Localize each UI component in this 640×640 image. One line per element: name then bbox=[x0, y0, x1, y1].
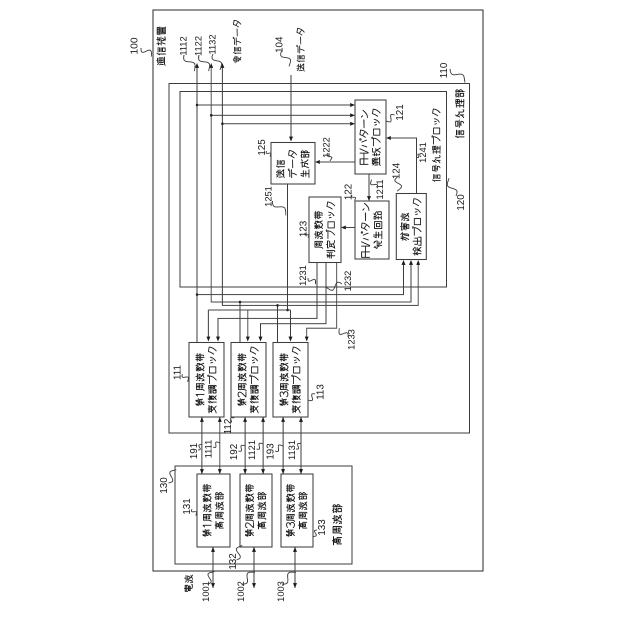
label 1131 with leader bbox=[287, 440, 301, 460]
label 131 with leader bbox=[182, 498, 197, 515]
block 第1周波数帯高周波部 131 bbox=[197, 474, 230, 547]
svg-text:1122: 1122 bbox=[193, 36, 203, 56]
svg-text:1211: 1211 bbox=[375, 180, 385, 200]
label 133 with leader bbox=[313, 519, 329, 537]
wire branch modem3 to FH選択 input3 bbox=[221, 122, 355, 126]
svg-text:111: 111 bbox=[173, 365, 184, 380]
label 1003 with leader bbox=[276, 572, 296, 602]
svg-text:112: 112 bbox=[223, 419, 234, 435]
label 123 with leader bbox=[299, 220, 310, 237]
label 111 with leader bbox=[173, 365, 189, 382]
whole diagram rotated 90deg CCW (patent figure orientation) bbox=[0, 0, 1, 1]
wire 妨害波検出 input from modem1 line bbox=[196, 260, 406, 296]
label 通信装置 bbox=[157, 27, 166, 65]
block FH/パターン選択ブロック 121 bbox=[355, 100, 386, 174]
label 104 with leader bbox=[275, 36, 291, 67]
wire FH発生回路 to 周波数帯判定ブロック bbox=[341, 226, 355, 230]
svg-text:1241: 1241 bbox=[418, 142, 428, 163]
block 第1周波数帯変復調ブロック 111 bbox=[189, 343, 224, 418]
wire 送信データ input 104 bbox=[289, 75, 293, 142]
wire RF3-modem3 a bbox=[281, 417, 285, 474]
label 121 with leader bbox=[386, 104, 407, 122]
svg-text:130: 130 bbox=[159, 477, 170, 494]
svg-text:1131: 1131 bbox=[287, 440, 297, 460]
svg-text:1231: 1231 bbox=[298, 265, 308, 286]
svg-text:1001: 1001 bbox=[201, 581, 211, 602]
wire 1231 判定ブロック to modem1 bbox=[216, 263, 317, 342]
label 1111 with leader bbox=[203, 440, 220, 459]
block 送信データ生成部 125 bbox=[271, 143, 315, 185]
label 130 with leader bbox=[159, 470, 176, 494]
label 120 with leader bbox=[447, 178, 467, 210]
svg-text:120: 120 bbox=[456, 194, 467, 211]
svg-text:124: 124 bbox=[392, 162, 403, 179]
label 1121 with leader bbox=[247, 440, 264, 460]
label 193 with leader bbox=[266, 443, 284, 460]
label 1251 with leader bbox=[263, 186, 285, 215]
box 信号処理部 110 bbox=[169, 84, 470, 434]
svg-text:110: 110 bbox=[439, 62, 450, 78]
label 1241 with leader bbox=[416, 142, 427, 163]
wire 1211 FH選択 to FH発生回路 bbox=[367, 174, 371, 201]
label 1211 with leader bbox=[371, 180, 385, 200]
block 妨害波検出ブロック 124 bbox=[396, 194, 426, 260]
svg-text:113: 113 bbox=[316, 384, 327, 400]
svg-text:133: 133 bbox=[317, 519, 328, 536]
svg-text:121: 121 bbox=[395, 104, 406, 120]
wire antenna 1 double arrow bbox=[211, 547, 215, 588]
block 第3周波数帯変復調ブロック 113 bbox=[273, 343, 308, 418]
block FH/パターン発生回路 122 bbox=[355, 201, 389, 259]
block 第2周波数帯高周波部 132 bbox=[240, 474, 272, 547]
label 132 with leader bbox=[228, 546, 242, 570]
svg-text:1121: 1121 bbox=[247, 440, 257, 460]
svg-text:132: 132 bbox=[228, 553, 239, 569]
label 高周波部 bbox=[332, 505, 342, 545]
wire modem3 output jog to 受信データ 1132 bbox=[220, 63, 277, 343]
label 1233 with leader bbox=[339, 328, 356, 350]
label 1122 with leader bbox=[193, 36, 209, 71]
label 電波 bbox=[184, 575, 192, 591]
label 1112 with leader bbox=[178, 36, 195, 71]
label 1001 with leader bbox=[201, 572, 214, 602]
label 192 with leader bbox=[229, 444, 245, 460]
label 112 with leader bbox=[223, 418, 234, 435]
wire RF3-modem3 b bbox=[299, 417, 303, 474]
label 信号処理ブロック bbox=[432, 109, 440, 181]
box 信号処理ブロック 120 bbox=[180, 92, 447, 288]
label 113 with leader bbox=[308, 384, 327, 401]
label 191 with leader bbox=[189, 443, 202, 459]
label 送信データ bbox=[297, 28, 305, 71]
outer box 通信装置 100 bbox=[153, 10, 483, 571]
wire 1241 妨害波検出 to FH選択 bbox=[386, 136, 417, 193]
box 高周波部 130 bbox=[175, 466, 352, 564]
wire 1233 判定ブロック to modem3 bbox=[305, 263, 337, 342]
wire RF2-modem2 a bbox=[243, 417, 247, 474]
svg-text:191: 191 bbox=[189, 443, 200, 459]
label 1232 with leader bbox=[326, 271, 353, 292]
svg-text:193: 193 bbox=[266, 443, 277, 460]
block 第3周波数帯高周波部 133 bbox=[281, 474, 313, 547]
block 第2周波数帯変復調ブロック 112 bbox=[231, 343, 266, 418]
wire antenna 2 double arrow bbox=[252, 547, 256, 588]
svg-text:1111: 1111 bbox=[203, 440, 213, 459]
svg-text:100: 100 bbox=[130, 37, 141, 54]
label 1002 with leader bbox=[236, 572, 255, 602]
label 125 with leader bbox=[257, 139, 271, 157]
svg-text:131: 131 bbox=[182, 498, 193, 514]
wire 妨害波検出 input from modem3 line bbox=[276, 260, 420, 307]
svg-text:104: 104 bbox=[275, 36, 286, 53]
svg-text:1232: 1232 bbox=[343, 271, 353, 292]
wire branch modem2 to FH選択 input2 bbox=[210, 113, 355, 117]
label 100 with leader bbox=[130, 37, 152, 56]
svg-text:192: 192 bbox=[229, 444, 240, 460]
wire 1222 FH選択 to 送信データ生成部 bbox=[315, 160, 355, 164]
svg-text:1112: 1112 bbox=[178, 36, 188, 55]
label 1231 with leader bbox=[298, 265, 316, 286]
svg-text:1222: 1222 bbox=[321, 137, 331, 158]
label 受信データ bbox=[233, 20, 241, 63]
label 信号処理部 bbox=[455, 90, 464, 138]
label 124 with leader bbox=[392, 162, 403, 191]
wire modem1 output to 受信データ 1112 bbox=[195, 63, 199, 343]
wire branch modem1 to FH選択 input1 bbox=[196, 103, 355, 107]
wire modem2 output jog to 受信データ 1122 bbox=[209, 63, 240, 343]
label 1132 with leader bbox=[207, 35, 221, 70]
wire RF1-modem1 b bbox=[218, 417, 222, 474]
wire RF1-modem1 a bbox=[200, 417, 204, 474]
label 1222 with leader bbox=[321, 137, 332, 161]
block 周波数帯判定ブロック 123 bbox=[309, 197, 341, 263]
label 122 with leader bbox=[344, 184, 356, 201]
wire 1232 判定ブロック to modem2 bbox=[259, 263, 326, 342]
wire antenna 3 double arrow bbox=[293, 547, 297, 588]
wire 1251 送信データ生成部 to modem bus bbox=[206, 184, 292, 342]
svg-text:1251: 1251 bbox=[263, 186, 273, 207]
svg-text:1233: 1233 bbox=[346, 329, 356, 350]
label 110 with leader bbox=[439, 62, 465, 82]
wire RF2-modem2 b bbox=[261, 417, 265, 474]
wire 妨害波検出 input from modem2 line bbox=[239, 260, 413, 303]
svg-text:1132: 1132 bbox=[207, 35, 217, 55]
